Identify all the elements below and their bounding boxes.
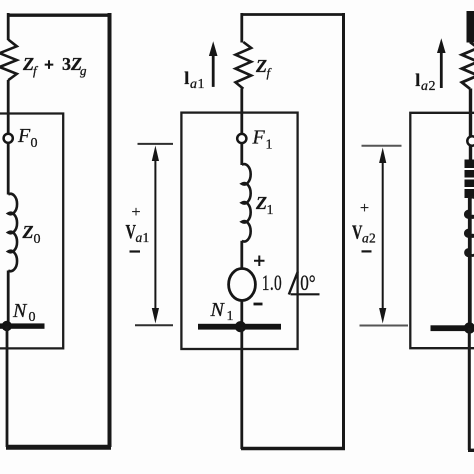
resistor Zf+3Zg xyxy=(0,40,17,81)
svg-text:1.0: 1.0 xyxy=(262,271,282,295)
wire: resistor to F2 xyxy=(469,89,472,137)
svg-text:N: N xyxy=(210,299,226,321)
svg-text:0: 0 xyxy=(29,310,36,325)
svg-text:0°: 0° xyxy=(300,271,315,296)
resistor Zf (right, cut off) xyxy=(462,42,474,89)
polarity + of source xyxy=(254,256,265,267)
resistor Zf xyxy=(236,42,252,89)
network box (left, cut off at image edge) xyxy=(0,114,63,349)
svg-text:+: + xyxy=(360,200,369,217)
dimension line Va1: bottom tick xyxy=(135,324,173,326)
svg-text:Z: Z xyxy=(22,222,34,242)
svg-text:1: 1 xyxy=(227,309,234,324)
wire: right circuit bottom stub xyxy=(468,449,474,452)
inductor Z0 coil xyxy=(8,194,17,271)
reference bus N2 xyxy=(431,325,474,331)
inductor Z2 upper block (cut off at edge) xyxy=(465,160,474,199)
svg-text:0: 0 xyxy=(34,232,41,247)
wire: middle circuit right side xyxy=(342,13,345,449)
wire: middle circuit top xyxy=(241,13,345,16)
dimension line Va2: top tick xyxy=(362,145,402,147)
dimension line Va1: top tick xyxy=(138,143,174,145)
wire: coil to N0 bus xyxy=(7,271,10,325)
reference bus N1 xyxy=(198,324,281,330)
node F2 circle (cut off) xyxy=(467,136,474,145)
svg-text:1: 1 xyxy=(198,77,205,92)
wire: source to N1 xyxy=(240,301,243,331)
svg-text:a: a xyxy=(421,79,428,94)
svg-text:3: 3 xyxy=(62,54,71,74)
svg-text:N: N xyxy=(12,300,28,322)
reference bus N0 xyxy=(0,323,45,328)
node F1 circle xyxy=(237,134,246,143)
wire: right circuit top thick stub (cut off) xyxy=(467,11,474,43)
wire: N2 down to bottom xyxy=(468,328,471,450)
svg-text:F: F xyxy=(252,127,266,149)
network box (middle) xyxy=(181,113,297,349)
svg-text:a: a xyxy=(362,231,369,246)
svg-text:a: a xyxy=(136,230,143,245)
wire: N0 down through box to bottom xyxy=(6,326,9,447)
current arrow Ia2 xyxy=(440,50,443,88)
svg-text:F: F xyxy=(17,125,31,147)
svg-text:1: 1 xyxy=(143,230,150,245)
wire: F2 to coil xyxy=(469,145,472,160)
svg-text:1: 1 xyxy=(266,138,273,153)
junction dot N1 xyxy=(235,321,246,332)
wire: F0 to coil xyxy=(7,143,10,195)
dimension line Va1: vertical with arrowheads xyxy=(154,156,156,314)
wire: left circuit top xyxy=(8,13,110,16)
svg-text:Z: Z xyxy=(255,193,267,213)
wire: left circuit bottom xyxy=(6,445,111,450)
wire: middle vertical top segment xyxy=(240,13,243,43)
wire: resistor to F1 xyxy=(240,89,243,135)
wire: left vertical top segment xyxy=(7,13,10,40)
svg-text:+: + xyxy=(132,204,141,221)
dimension line Va2: vertical with arrowheads xyxy=(382,158,384,314)
inductor Z2 coil (cut off) xyxy=(470,197,474,255)
junction dot N0 xyxy=(2,321,12,331)
svg-text:Z: Z xyxy=(255,56,267,76)
wire: resistor to F0 xyxy=(7,80,10,134)
current arrow Ia1 xyxy=(212,53,215,87)
network box (right, cut off) xyxy=(410,113,474,348)
node F0 circle xyxy=(4,134,13,143)
inductor Z1 coil xyxy=(242,164,251,241)
svg-text:g: g xyxy=(80,63,87,78)
wire: left circuit right side xyxy=(108,13,112,447)
svg-text:2: 2 xyxy=(429,79,436,94)
wire: coil to source xyxy=(240,241,243,269)
wire: F1 to coil xyxy=(240,143,243,165)
inductor Z2 left hooks (cut off at edge) xyxy=(465,211,470,256)
svg-text:l: l xyxy=(415,70,420,90)
wire: coil to N2 xyxy=(468,197,472,330)
wire: N1 down through box to bottom xyxy=(240,327,243,449)
svg-text:l: l xyxy=(184,68,189,88)
svg-text:a: a xyxy=(190,77,197,92)
svg-text:1: 1 xyxy=(267,203,274,218)
dimension line Va2: bottom tick xyxy=(360,325,409,327)
svg-text:f: f xyxy=(267,65,273,80)
polarity - of source xyxy=(254,303,263,306)
junction dot N2 xyxy=(464,322,474,333)
svg-text:f: f xyxy=(33,63,39,78)
svg-text:2: 2 xyxy=(369,231,376,246)
voltage source E1 xyxy=(229,269,256,301)
svg-text:0: 0 xyxy=(31,136,38,151)
wire: middle circuit bottom xyxy=(241,447,345,450)
